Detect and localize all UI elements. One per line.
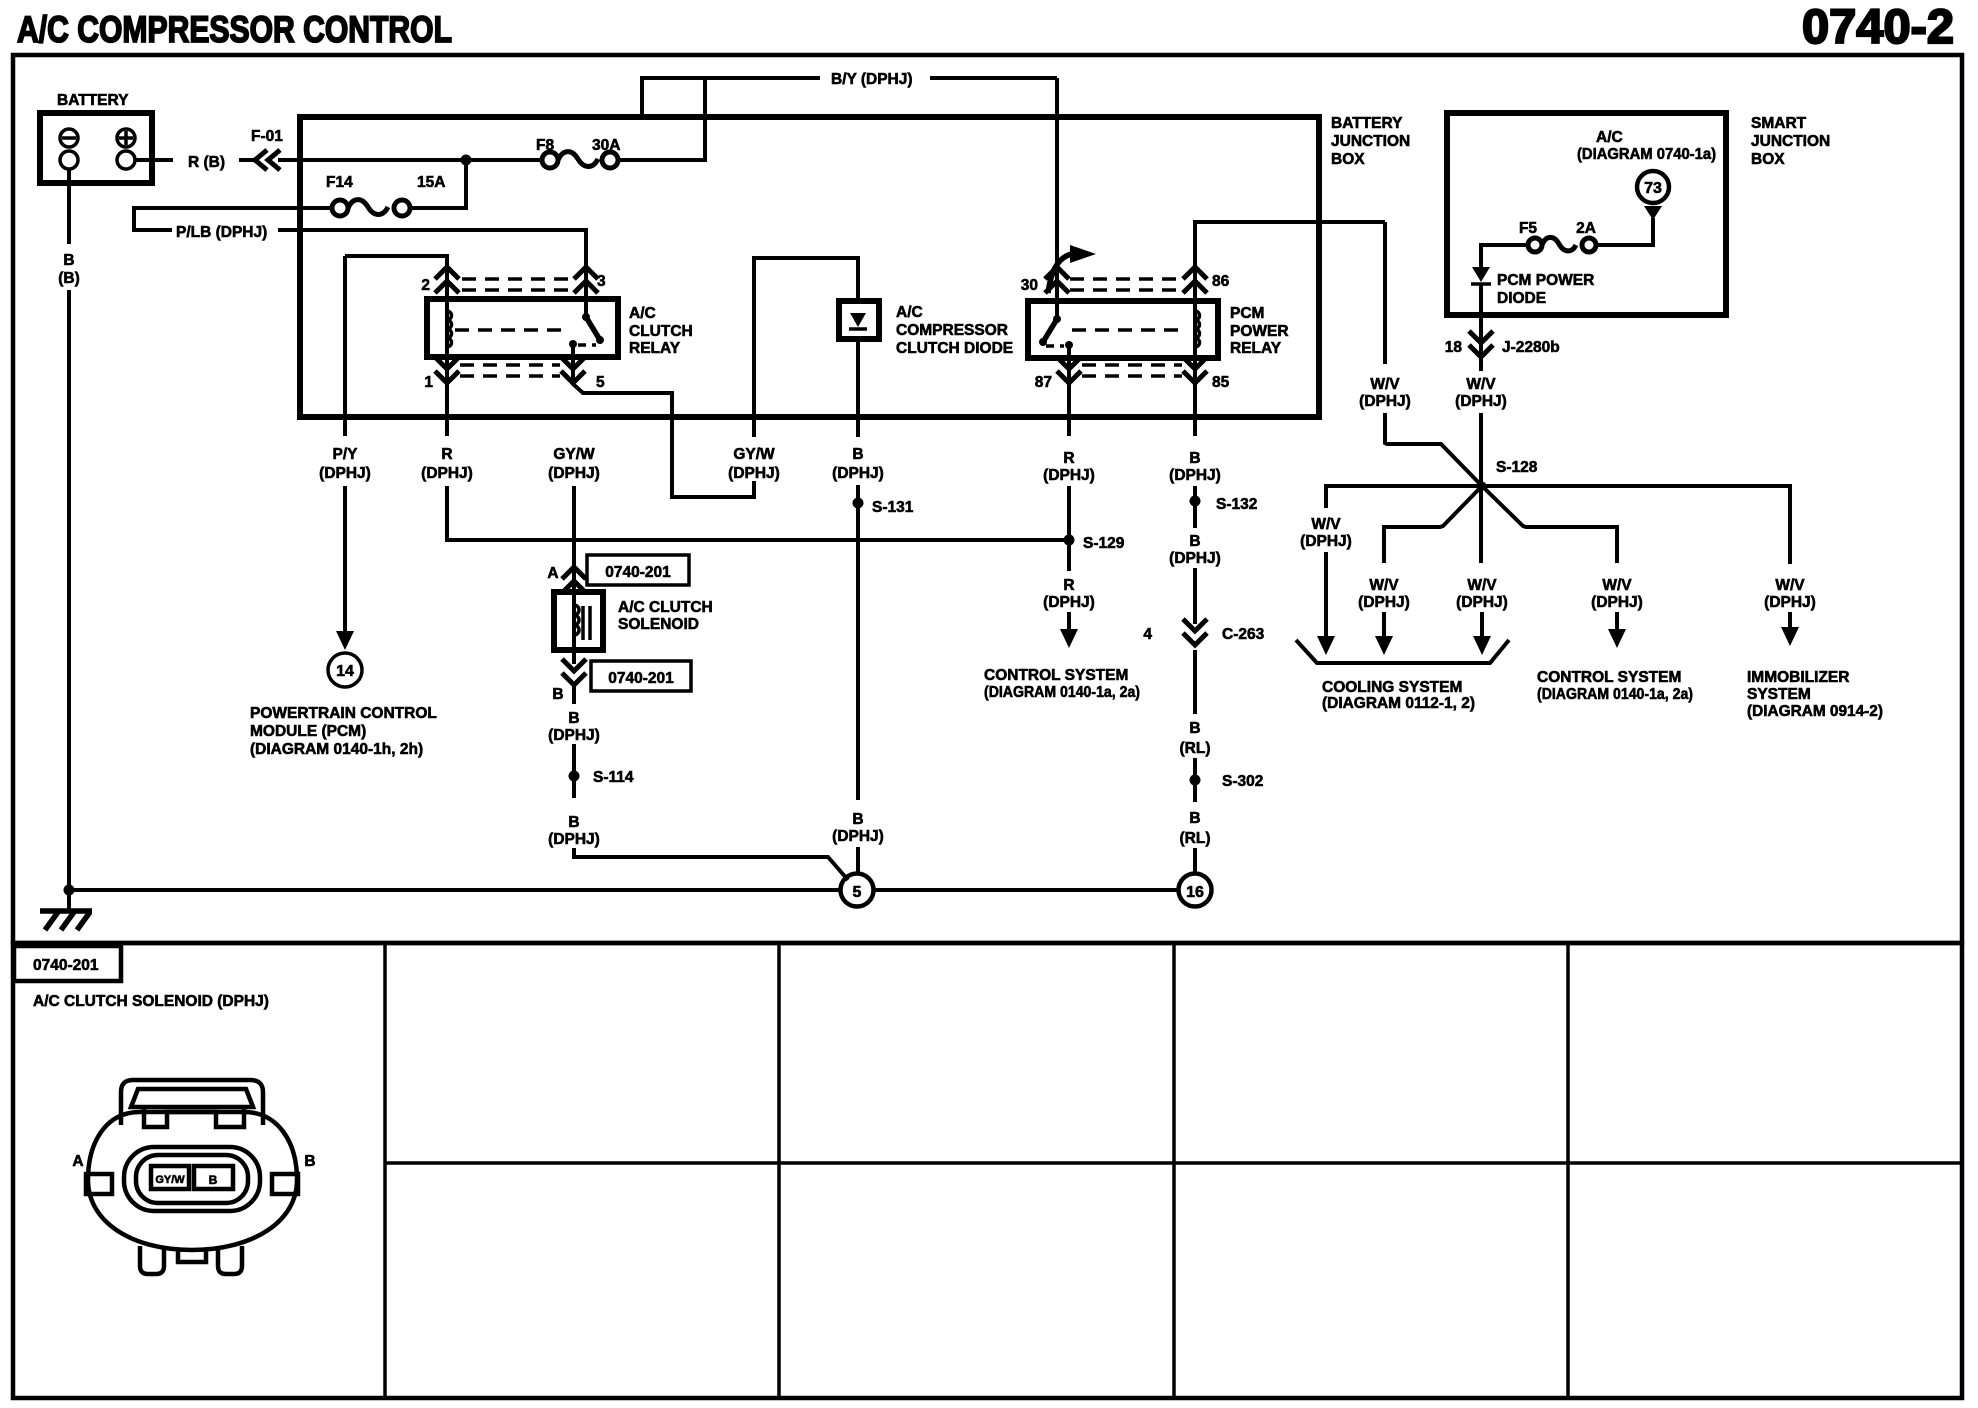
svg-text:R: R [1063,450,1074,467]
svg-text:JUNCTION: JUNCTION [1331,133,1410,150]
relay actuator arrow [1048,254,1072,293]
svg-text:CONTROL SYSTEM: CONTROL SYSTEM [1537,669,1681,686]
svg-text:(DIAGRAM 0140-1a, 2a): (DIAGRAM 0140-1a, 2a) [984,684,1140,701]
svg-text:S-302: S-302 [1222,773,1263,790]
svg-text:COOLING SYSTEM: COOLING SYSTEM [1322,679,1462,696]
wire P/LB to relay pin 3 [278,230,586,301]
wire junction to F14 [410,160,466,208]
wire S-128 right branch [1482,486,1790,564]
svg-text:(DIAGRAM 0112-1, 2): (DIAGRAM 0112-1, 2) [1322,695,1475,712]
svg-text:(DPHJ): (DPHJ) [1764,594,1816,611]
connector head [121,1080,263,1125]
svg-text:POWERTRAIN CONTROL: POWERTRAIN CONTROL [250,705,437,722]
cooling system bracket [1296,640,1509,663]
svg-text:1: 1 [424,374,433,391]
wire F5 to PCM power diode [1481,245,1528,267]
pin 85 [1193,358,1197,436]
node 16 circle [1179,874,1212,907]
svg-text:B: B [209,1173,218,1187]
pin 5 [573,357,754,497]
wire F-01 into BJB [278,158,542,162]
svg-text:3: 3 [597,273,606,290]
svg-text:B: B [63,252,74,269]
svg-text:MODULE (PCM): MODULE (PCM) [250,723,366,740]
connector F-01 chevrons [255,150,280,170]
svg-text:S-131: S-131 [872,499,914,516]
svg-text:(DPHJ): (DPHJ) [832,465,884,482]
svg-text:SMART: SMART [1751,115,1807,132]
A/C clutch solenoid [554,592,603,650]
PCM relay switch [1055,301,1059,319]
svg-text:RELAY: RELAY [629,340,681,357]
svg-text:A: A [547,565,558,582]
connector tabs [140,1246,164,1274]
svg-text:0740-201: 0740-201 [605,564,671,581]
svg-text:A/C CLUTCH: A/C CLUTCH [618,599,713,616]
svg-text:A/C: A/C [896,304,923,321]
svg-text:SOLENOID: SOLENOID [618,616,699,633]
svg-text:W/V: W/V [1467,577,1497,594]
relay contact dashed [455,328,566,332]
svg-text:0740-201: 0740-201 [33,957,99,974]
svg-text:15A: 15A [417,174,445,191]
PCM power relay [1028,301,1218,358]
connector inner rings [124,1147,260,1211]
svg-text:18: 18 [1445,339,1463,356]
svg-text:CLUTCH DIODE: CLUTCH DIODE [896,340,1013,357]
PCM relay contact dashed [1072,328,1186,332]
connector ears [86,1174,112,1194]
pin GY/W [151,1166,189,1189]
svg-text:B: B [852,446,863,463]
svg-text:(RL): (RL) [1180,740,1211,757]
svg-text:(DPHJ): (DPHJ) [1591,594,1643,611]
svg-text:A/C: A/C [629,305,656,322]
svg-text:A/C CLUTCH SOLENOID (DPHJ): A/C CLUTCH SOLENOID (DPHJ) [33,993,269,1010]
svg-text:BOX: BOX [1751,151,1785,168]
svg-text:0740-201: 0740-201 [608,670,674,687]
svg-text:P/Y: P/Y [333,446,359,463]
svg-text:(DPHJ): (DPHJ) [548,727,600,744]
svg-text:BOX: BOX [1331,151,1365,168]
svg-text:(DPHJ): (DPHJ) [548,831,600,848]
svg-text:C-263: C-263 [1222,626,1265,643]
node 73 circle [1637,171,1669,203]
svg-text:A: A [72,1153,83,1170]
svg-text:S-129: S-129 [1083,535,1125,552]
svg-text:(DPHJ): (DPHJ) [421,465,473,482]
svg-text:B: B [852,811,863,828]
svg-text:(DPHJ): (DPHJ) [1169,550,1221,567]
svg-text:B: B [1189,450,1200,467]
wire R(B) to F-01 [239,158,256,162]
svg-text:(DIAGRAM 0140-1a, 2a): (DIAGRAM 0140-1a, 2a) [1537,686,1693,703]
table ref box 0740-201 [14,946,121,981]
svg-text:B: B [1189,810,1200,827]
svg-text:2A: 2A [1576,220,1596,237]
svg-text:(DPHJ): (DPHJ) [832,828,884,845]
pin 3 [574,267,598,293]
svg-text:IMMOBILIZER: IMMOBILIZER [1747,669,1849,686]
pin 1 [445,357,449,436]
svg-text:W/V: W/V [1369,577,1399,594]
svg-text:POWER: POWER [1230,323,1289,340]
svg-text:P/LB (DPHJ): P/LB (DPHJ) [176,224,267,241]
svg-text:F5: F5 [1519,220,1537,237]
relay coil [445,301,449,357]
svg-text:DIODE: DIODE [1497,290,1546,307]
svg-text:PCM: PCM [1230,305,1264,322]
svg-text:(DIAGRAM 0140-1h, 2h): (DIAGRAM 0140-1h, 2h) [250,741,423,758]
splice S-302 [1190,775,1201,786]
svg-text:W/V: W/V [1311,516,1341,533]
svg-text:(RL): (RL) [1180,830,1211,847]
svg-text:CLUTCH: CLUTCH [629,323,693,340]
svg-text:5: 5 [853,884,862,901]
wire S-128 lower-right branch [1482,486,1617,563]
svg-text:B: B [568,814,579,831]
svg-text:(DPHJ): (DPHJ) [1359,393,1411,410]
splice S-131 [853,498,864,509]
svg-text:S-128: S-128 [1496,459,1538,476]
svg-text:GY/W: GY/W [155,1174,185,1186]
svg-text:S-114: S-114 [593,769,634,786]
splice S-128 [1478,482,1487,491]
wire F14 to P/LB corner [134,208,332,230]
svg-text:BATTERY: BATTERY [57,92,129,109]
svg-text:2: 2 [421,277,430,294]
node 14 circle [328,653,362,687]
smart junction box [1447,113,1726,315]
svg-text:(DPHJ): (DPHJ) [1043,467,1095,484]
connector ref box 0740-201 [587,555,689,585]
svg-text:(DPHJ): (DPHJ) [1300,533,1352,550]
svg-text:SYSTEM: SYSTEM [1747,686,1811,703]
wire GY/W loop to diode [754,258,858,437]
A/C compressor clutch diode [839,301,879,339]
wire battery to R(B) [135,158,173,162]
svg-text:CONTROL SYSTEM: CONTROL SYSTEM [984,667,1128,684]
A/C clutch relay [427,299,618,357]
svg-text:B: B [552,686,563,703]
svg-text:14: 14 [336,663,354,680]
relay switch [584,301,588,317]
svg-text:(DPHJ): (DPHJ) [1169,467,1221,484]
svg-text:(DIAGRAM 0914-2): (DIAGRAM 0914-2) [1747,703,1883,720]
main diagram frame [13,55,1962,943]
svg-text:4: 4 [1143,626,1152,643]
node 5 circle [841,874,874,907]
svg-text:GY/W: GY/W [553,446,595,463]
svg-text:5: 5 [596,374,605,391]
svg-text:86: 86 [1212,273,1230,290]
svg-text:(DPHJ): (DPHJ) [1043,594,1095,611]
dashed pin rows PCM relay [1070,279,1182,376]
battery B1 [40,113,152,183]
svg-text:16: 16 [1186,884,1204,901]
svg-text:(DPHJ): (DPHJ) [548,465,600,482]
svg-text:B: B [304,1153,315,1170]
svg-text:R: R [441,446,452,463]
node junction dot [461,155,472,166]
svg-text:R (B): R (B) [188,154,225,171]
splice S-132 [1190,496,1201,507]
svg-text:(DIAGRAM 0740-1a): (DIAGRAM 0740-1a) [1577,146,1716,163]
svg-text:W/V: W/V [1466,376,1496,393]
dashed pin rows A/C relay [460,279,572,376]
ground bus [69,888,1178,892]
svg-text:F14: F14 [326,174,353,191]
svg-text:W/V: W/V [1775,577,1805,594]
svg-text:0740-2: 0740-2 [1802,1,1954,54]
pin 87 [1067,358,1071,436]
svg-text:85: 85 [1212,374,1230,391]
svg-text:73: 73 [1644,180,1662,197]
svg-text:F-01: F-01 [251,128,283,145]
svg-text:S-132: S-132 [1216,496,1257,513]
PCM power diode [1472,267,1490,282]
splice S-129 [1064,535,1075,546]
wire F8 to riser [618,78,705,160]
pin 86 [1195,222,1385,301]
svg-text:B: B [1189,720,1200,737]
wire B/Y (DPHJ) [642,78,1057,117]
svg-text:J-2280b: J-2280b [1502,339,1560,356]
svg-text:(DPHJ): (DPHJ) [1358,594,1410,611]
svg-text:B: B [1189,533,1200,550]
wire P/Y to PCM [343,256,347,436]
connector ref box 0740-201 lower [591,661,691,691]
connector C-263 pin 4 [1183,619,1207,645]
svg-text:(DPHJ): (DPHJ) [1456,594,1508,611]
wire 73 to F5 [1597,218,1653,245]
wire S-128 lower-left branch [1384,486,1482,563]
svg-text:PCM POWER: PCM POWER [1497,272,1594,289]
svg-text:(DPHJ): (DPHJ) [319,465,371,482]
wire diode down [856,339,860,437]
bottom table [13,943,1962,1398]
svg-text:(B): (B) [58,270,80,287]
svg-text:R: R [1063,577,1074,594]
PCM relay coil [1193,301,1197,358]
svg-text:BATTERY: BATTERY [1331,115,1403,132]
svg-text:B/Y (DPHJ): B/Y (DPHJ) [831,71,913,88]
wire S-128 left branch [1326,486,1482,508]
svg-text:RELAY: RELAY [1230,340,1282,357]
connector body [88,1112,297,1250]
connector drawing A/C clutch solenoid [86,1080,298,1274]
pin B [194,1166,233,1189]
pin 2 [345,256,447,299]
svg-text:W/V: W/V [1602,577,1632,594]
svg-text:(DPHJ): (DPHJ) [728,465,780,482]
splice S-114 [569,771,580,782]
svg-text:A/C: A/C [1596,129,1623,146]
node ground junction [64,885,75,896]
svg-text:COMPRESSOR: COMPRESSOR [896,322,1008,339]
wire B(B) battery ground lead [67,169,71,244]
svg-text:GY/W: GY/W [733,446,775,463]
svg-text:30: 30 [1021,277,1038,294]
svg-text:A/C COMPRESSOR CONTROL: A/C COMPRESSOR CONTROL [17,9,452,50]
svg-text:W/V: W/V [1370,376,1400,393]
wire diode to pin 18 [1479,284,1483,371]
pin 30 [1055,78,1059,301]
svg-text:JUNCTION: JUNCTION [1751,133,1830,150]
ground symbol [40,908,92,914]
svg-text:(DPHJ): (DPHJ) [1455,393,1507,410]
battery junction box [300,117,1319,417]
svg-text:87: 87 [1035,374,1052,391]
svg-text:B: B [568,710,579,727]
